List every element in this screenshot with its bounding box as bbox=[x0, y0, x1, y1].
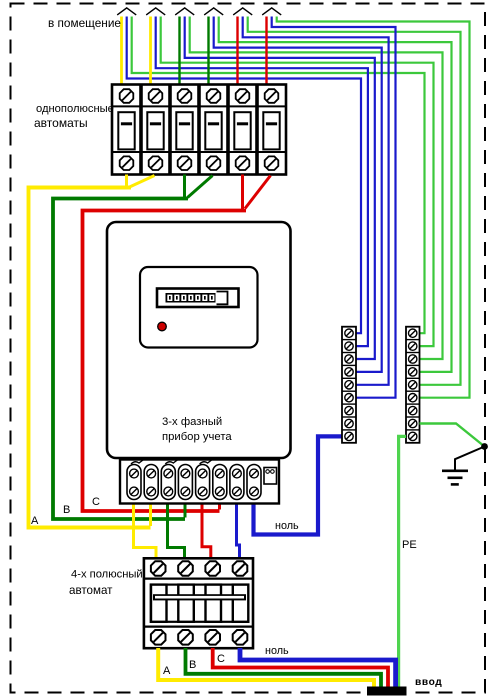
PE strip terminal 5 bbox=[409, 381, 417, 389]
breaker divider 5 bbox=[255, 85, 259, 175]
meter register window bbox=[157, 289, 239, 308]
breaker 1 toggle bbox=[118, 112, 134, 149]
register digit 1 bbox=[167, 295, 172, 301]
meter terminal 4 bbox=[178, 465, 192, 500]
svg-text:прибор учета: прибор учета bbox=[162, 431, 232, 443]
earth conductor bbox=[455, 447, 485, 471]
svg-text:ноль: ноль bbox=[275, 520, 299, 532]
4-pole breaker pole 1 top terminal bbox=[151, 561, 166, 576]
breaker 5 bottom terminal bbox=[236, 156, 250, 170]
arrow outgoing line 5 bbox=[233, 8, 252, 15]
neutral strip terminal 8 bbox=[345, 419, 353, 427]
PE strip terminal 2 bbox=[409, 342, 417, 350]
wire phase feed room circuit 3 bbox=[178, 17, 180, 87]
wire input phase C bbox=[213, 648, 388, 688]
PE strip terminal 3 bbox=[409, 355, 417, 363]
wire meter terminal 3 to 4-pole breaker pole 2 bbox=[168, 503, 185, 559]
breaker row section lines bbox=[112, 105, 286, 107]
4-pole breaker tie bar bbox=[153, 594, 246, 600]
wire meter terminal 7 to 4-pole breaker pole 4 bbox=[237, 503, 240, 559]
jumper breakers 5-6 phase C bbox=[245, 176, 271, 209]
wire meter terminal 4 phase B out bbox=[184, 503, 187, 518]
4-pole breaker pole 3 bottom terminal bbox=[205, 630, 220, 645]
voltage jumper link 1 bbox=[131, 460, 143, 464]
breaker 3 bottom terminal bbox=[178, 156, 192, 170]
breaker divider 4 bbox=[226, 85, 230, 175]
register digit 6 bbox=[202, 295, 207, 301]
wire neutral to room circuit 4 bbox=[214, 17, 382, 372]
PE strip terminal 7 bbox=[409, 406, 417, 414]
PE strip terminal 1 bbox=[409, 329, 417, 337]
svg-text:однополюсные: однополюсные bbox=[36, 103, 114, 115]
wire phase feed room circuit 1 bbox=[120, 17, 123, 87]
meter terminal box bbox=[120, 460, 279, 504]
wire input phase B bbox=[186, 648, 382, 688]
wire meter terminal 2 phase A out bbox=[149, 503, 152, 526]
wire phase feed room circuit 2 bbox=[149, 17, 152, 87]
wire PE to room circuit 6 bbox=[277, 17, 470, 398]
earth node junction bbox=[481, 443, 488, 450]
wire PE to room circuit 2 bbox=[161, 17, 434, 347]
arrow outgoing line 1 bbox=[117, 8, 136, 15]
neutral strip terminal 5 bbox=[345, 381, 353, 389]
svg-text:PE: PE bbox=[402, 539, 417, 551]
PE strip terminal 9 bbox=[409, 432, 417, 440]
wire PE to room circuit 5 bbox=[248, 17, 461, 385]
breaker divider 1 bbox=[139, 85, 143, 175]
4-pole breaker toggle 1 bbox=[151, 585, 167, 622]
breaker 2 top terminal bbox=[149, 89, 163, 103]
breaker 3 toggle bbox=[176, 112, 192, 149]
wire neutral to room circuit 2 bbox=[156, 17, 368, 347]
neutral strip terminal 1 bbox=[345, 329, 353, 337]
voltage jumper link 2 bbox=[165, 460, 177, 464]
register digit 4 bbox=[188, 295, 193, 301]
wire PE to room circuit 1 bbox=[132, 17, 425, 334]
ground symbol bbox=[442, 469, 468, 472]
meter aux box bbox=[264, 468, 277, 485]
meter terminal 5 bbox=[196, 465, 210, 500]
4-pole breaker toggle 3 bbox=[206, 585, 222, 622]
arrow outgoing line 2 bbox=[146, 8, 165, 15]
neutral strip terminal 2 bbox=[345, 342, 353, 350]
register digit 3 bbox=[181, 295, 186, 301]
wire neutral to room circuit 1 bbox=[127, 17, 361, 334]
wire phase feed room circuit 4 bbox=[207, 17, 209, 87]
wire phase B bus from breakers 3-4 bbox=[183, 175, 186, 198]
single-pole breakers group box bbox=[112, 85, 286, 175]
meter terminal 8 bbox=[247, 465, 261, 500]
jumper breakers 3-4 phase B bbox=[188, 176, 213, 198]
wire meter terminal 6 phase C out bbox=[218, 503, 221, 510]
4-pole breaker pole 4 bottom terminal bbox=[233, 630, 248, 645]
meter indicator LED bbox=[158, 322, 167, 331]
breaker 6 top terminal bbox=[265, 89, 279, 103]
wire phase A bus from breakers 1-2 bbox=[125, 175, 128, 187]
svg-text:3-х фазный: 3-х фазный bbox=[162, 416, 222, 428]
PE terminal strip bbox=[406, 327, 420, 443]
PE strip terminal 4 bbox=[409, 368, 417, 376]
svg-text:С: С bbox=[92, 496, 100, 508]
wire input neutral bbox=[240, 648, 396, 688]
svg-text:В: В bbox=[63, 504, 70, 516]
4-pole breaker pole 3 top terminal bbox=[205, 561, 220, 576]
voltage jumper link 3 bbox=[200, 460, 212, 464]
4-pole breaker toggle 4 bbox=[233, 585, 249, 622]
register last-wheel bracket bbox=[217, 292, 228, 305]
4-pole breaker pole 2 top terminal bbox=[178, 561, 193, 576]
neutral strip terminal 6 bbox=[345, 394, 353, 402]
neutral strip terminal 9 bbox=[345, 432, 353, 440]
breaker 4 top terminal bbox=[207, 89, 221, 103]
wire PE to room circuit 4 bbox=[219, 17, 452, 372]
wire meter neutral out to neutral bus bbox=[254, 436, 343, 534]
breaker 6 toggle bbox=[263, 112, 279, 149]
4-pole breaker box bbox=[144, 558, 253, 648]
wire meter terminal 1 to 4-pole breaker pole 1 bbox=[134, 503, 157, 559]
wire neutral to room circuit 5 bbox=[243, 17, 389, 385]
wire meter terminal 5 to 4-pole breaker pole 3 bbox=[202, 503, 211, 559]
breaker 4 bottom terminal bbox=[207, 156, 221, 170]
wire neutral to room circuit 3 bbox=[185, 17, 375, 360]
4-pole breaker toggle frame bbox=[151, 585, 248, 622]
neutral strip terminal 7 bbox=[345, 406, 353, 414]
meter terminal 7 bbox=[230, 465, 244, 500]
breaker 5 top terminal bbox=[236, 89, 250, 103]
svg-text:В: В bbox=[189, 659, 196, 671]
3-phase meter body bbox=[107, 222, 291, 458]
PE strip terminal 8 bbox=[409, 419, 417, 427]
svg-text:ноль: ноль bbox=[265, 645, 289, 657]
breaker 2 bottom terminal bbox=[149, 156, 163, 170]
svg-text:автомат: автомат bbox=[69, 584, 113, 597]
4-pole breaker pole 4 top terminal bbox=[233, 561, 248, 576]
meter face plate bbox=[140, 267, 258, 348]
jumper breakers 1-2 phase A bbox=[130, 176, 155, 188]
svg-text:автоматы: автоматы bbox=[34, 116, 88, 130]
breaker 3 top terminal bbox=[178, 89, 192, 103]
4-pole breaker toggle 2 bbox=[178, 585, 194, 622]
wire PE strip to earth node bbox=[420, 424, 485, 447]
wire phase feed room circuit 5 bbox=[236, 17, 238, 87]
neutral terminal strip bbox=[342, 327, 356, 443]
register digit 2 bbox=[174, 295, 179, 301]
register digit 7 bbox=[209, 295, 214, 301]
arrow outgoing line 3 bbox=[175, 8, 194, 15]
wire PE riser bbox=[399, 436, 406, 688]
register digit 5 bbox=[195, 295, 200, 301]
breaker 4 toggle bbox=[205, 112, 221, 149]
4-pole breaker pole 1 bottom terminal bbox=[151, 630, 166, 645]
PE strip terminal 6 bbox=[409, 394, 417, 402]
breaker 5 toggle bbox=[234, 112, 250, 149]
meter terminal 3 bbox=[161, 465, 175, 500]
wire input phase A bbox=[158, 648, 374, 688]
neutral strip terminal 4 bbox=[345, 368, 353, 376]
breaker divider 3 bbox=[197, 85, 201, 175]
neutral strip terminal 3 bbox=[345, 355, 353, 363]
svg-text:А: А bbox=[163, 665, 171, 677]
meter terminal 2 bbox=[144, 465, 158, 500]
4-pole breaker pole 2 bottom terminal bbox=[178, 630, 193, 645]
svg-text:ввод: ввод bbox=[415, 677, 442, 688]
meter terminal 1 bbox=[127, 465, 141, 500]
meter terminal 6 bbox=[213, 465, 227, 500]
arrow outgoing line 4 bbox=[204, 8, 223, 15]
breaker 6 bottom terminal bbox=[265, 156, 279, 170]
wire PE to room circuit 3 bbox=[190, 17, 443, 360]
svg-text:С: С bbox=[217, 653, 225, 665]
arrow outgoing line 6 bbox=[262, 8, 281, 15]
breaker 1 top terminal bbox=[120, 89, 134, 103]
svg-text:4-х полюсный: 4-х полюсный bbox=[71, 569, 143, 581]
wire neutral to room circuit 6 bbox=[272, 17, 396, 398]
input cable gland bbox=[367, 687, 407, 696]
wire phase feed room circuit 6 bbox=[265, 17, 267, 87]
svg-text:в помещение: в помещение bbox=[48, 16, 121, 30]
breaker 1 bottom terminal bbox=[120, 156, 134, 170]
breaker divider 2 bbox=[168, 85, 172, 175]
svg-text:А: А bbox=[31, 515, 39, 527]
breaker 2 toggle bbox=[147, 112, 163, 149]
wire phase C bus from breakers 5-6 bbox=[241, 175, 244, 210]
